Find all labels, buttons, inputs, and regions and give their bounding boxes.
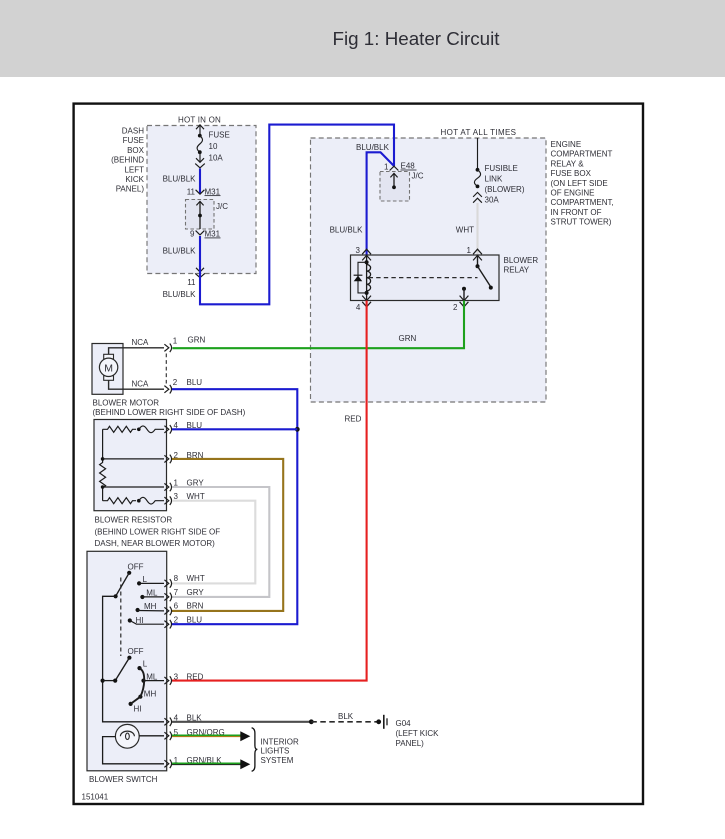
wire BLU resistor pin 4 to junction (172, 428, 297, 430)
svg-text:(BEHIND LOWER RIGHT SIDE OF DA: (BEHIND LOWER RIGHT SIDE OF DASH) (93, 408, 246, 417)
blower motor M1 (92, 344, 123, 395)
fuse value label (209, 131, 230, 163)
svg-text:OFF: OFF (128, 647, 144, 656)
svg-text:RED: RED (345, 414, 362, 423)
switch pin 6 (164, 602, 203, 616)
switch common feed wire (101, 596, 165, 722)
resistor pin 3 (164, 492, 204, 505)
svg-text:1: 1 (173, 337, 178, 346)
relay pin 3 (356, 246, 371, 260)
switch wafer 2 arm (113, 658, 129, 683)
lamp wire to pin 5 (139, 735, 164, 737)
switch wafer 1 contact L (137, 575, 164, 586)
svg-text:RELAY: RELAY (504, 266, 530, 275)
relay clamping diode (354, 262, 367, 293)
svg-text:3: 3 (356, 246, 361, 255)
svg-text:BLU/BLK: BLU/BLK (163, 175, 197, 184)
svg-text:11: 11 (187, 278, 196, 287)
switch wafer 1 contact HI (128, 616, 164, 625)
switch pin 4 (164, 713, 202, 726)
wire RED relay pin 4 to blower switch (172, 301, 367, 681)
resistor element bottom row (103, 497, 164, 504)
fusible link label (485, 164, 525, 205)
resistor element top row (103, 426, 164, 433)
switch wafer 1 contact ML (140, 588, 164, 599)
svg-text:M31: M31 (205, 230, 221, 239)
svg-text:BLK: BLK (338, 712, 354, 721)
svg-text:BLU/BLK: BLU/BLK (330, 226, 364, 235)
svg-text:NCA: NCA (132, 338, 150, 347)
switch wafer 2 contact ML (141, 672, 164, 682)
switch pin 1 (164, 756, 222, 768)
switch pin 3 (164, 673, 203, 685)
svg-text:M: M (104, 362, 113, 374)
svg-text:J/C: J/C (216, 202, 228, 211)
svg-text:3: 3 (174, 673, 179, 682)
wire NCA motor to pin 1 (109, 338, 164, 354)
svg-text:RED: RED (187, 673, 204, 682)
relay pin 1 (467, 246, 482, 260)
svg-text:7: 7 (174, 588, 179, 597)
resistor pin 2 (164, 451, 203, 463)
relay switch contact (462, 255, 493, 301)
net HOT IN ON (178, 115, 221, 124)
svg-text:OFF: OFF (128, 562, 144, 571)
wire BLU/BLK relay pin3 to E48 (330, 143, 394, 255)
svg-text:4: 4 (356, 303, 361, 312)
blower resistor label (95, 516, 221, 549)
junction BLU node (295, 427, 300, 432)
wire WHT resistor pin 3 to switch pin 8 (172, 501, 256, 584)
svg-text:1: 1 (467, 246, 472, 255)
svg-text:BLU/BLK: BLU/BLK (163, 290, 197, 299)
svg-text:J/C: J/C (412, 172, 424, 181)
switch wafer 2 OFF position (127, 647, 143, 660)
svg-text:ML: ML (146, 588, 158, 597)
switch wafer 2 contact L (137, 659, 147, 670)
wire GRN relay pin 2 to blower motor (173, 301, 465, 349)
switch mechanical link (dashed) (120, 578, 122, 657)
net HOT AT ALL TIMES (441, 128, 517, 137)
blower switch (87, 551, 167, 784)
motor connector pin 2 (164, 378, 202, 394)
svg-text:MH: MH (144, 689, 157, 698)
svg-text:GRN: GRN (188, 336, 206, 345)
svg-text:BLU/BLK: BLU/BLK (356, 143, 390, 152)
svg-text:151041: 151041 (82, 793, 109, 802)
wire BRN resistor pin 2 to switch pin 6 (172, 459, 284, 611)
svg-text:BLU: BLU (187, 615, 203, 624)
svg-text:Fig 1: Heater Circuit: Fig 1: Heater Circuit (333, 28, 501, 49)
svg-text:WHT: WHT (456, 226, 474, 235)
connector M31 pin 9 (190, 230, 221, 239)
svg-text:BLU: BLU (187, 378, 203, 387)
switch pin 8 (164, 574, 204, 588)
diagram number 151041 (82, 793, 109, 802)
switch pin 7 (164, 588, 204, 601)
wire WHT fusible link to relay pin 1 (456, 203, 478, 255)
fuse 10 10A (195, 125, 205, 168)
svg-text:8: 8 (174, 574, 179, 583)
fusible link (blower) 30A (473, 138, 482, 203)
svg-text:2: 2 (174, 615, 179, 624)
svg-text:9: 9 (190, 230, 195, 239)
svg-text:11: 11 (187, 187, 196, 196)
svg-text:2: 2 (173, 378, 178, 387)
svg-text:6: 6 (174, 602, 179, 611)
svg-text:E48: E48 (401, 162, 416, 171)
switch wafer 1 arm (114, 573, 130, 599)
wire NCA motor to pin 2 (109, 379, 164, 389)
svg-text:L: L (143, 659, 148, 668)
wire GRN/BLK to interior lights (172, 759, 250, 769)
wire BLU/BLK fuse to M31 (163, 169, 200, 195)
connector M31 pin 11 (187, 187, 221, 196)
connector E48 pin 1 (384, 162, 416, 172)
engine compartment relay box (dashed enclosure) (311, 138, 547, 402)
switch pin 5 (164, 728, 224, 740)
engine compartment box label (551, 140, 614, 227)
relay pin 4 (356, 296, 371, 313)
wire GRY resistor pin 1 to switch pin 7 (172, 487, 270, 597)
svg-text:BLOWER RESISTOR: BLOWER RESISTOR (95, 516, 173, 525)
svg-text:HOT AT ALL TIMES: HOT AT ALL TIMES (441, 128, 517, 137)
interior lights system brace (252, 728, 299, 772)
resistor mid row pin 1 (103, 486, 164, 488)
svg-text:DASH, NEAR BLOWER MOTOR): DASH, NEAR BLOWER MOTOR) (95, 539, 216, 548)
wire BLU motor pin 2 to blower switch pin 2 (172, 389, 298, 624)
blower relay (351, 255, 539, 301)
switch pin 2 (164, 615, 202, 628)
svg-text:1: 1 (384, 163, 389, 172)
svg-text:HOT IN ON: HOT IN ON (178, 115, 221, 124)
blower resistor (94, 420, 167, 511)
svg-text:MH: MH (144, 602, 157, 611)
switch wafer 2 contact arc (131, 668, 145, 704)
title bar (0, 0, 725, 77)
svg-text:M31: M31 (205, 187, 221, 196)
wire GRN/ORG to interior lights (172, 731, 250, 741)
relay pin 2 (453, 296, 468, 313)
dash fuse box (dashed enclosure) (147, 126, 256, 274)
wire BLU/BLK M31 to box exit (163, 236, 200, 267)
fuse box exit connector pin 11 (163, 268, 205, 299)
svg-text:2: 2 (453, 303, 458, 312)
svg-text:L: L (143, 575, 148, 584)
svg-text:HI: HI (136, 616, 144, 625)
junction connector M31 (J/C) (186, 200, 229, 230)
svg-text:NCA: NCA (132, 379, 150, 388)
motor connector body (165, 354, 167, 384)
resistor pin 1 (164, 479, 204, 492)
resistor left branch (100, 429, 106, 500)
relay coil (365, 255, 371, 301)
svg-text:GRY: GRY (187, 588, 205, 597)
relay armature dashed link (369, 277, 478, 279)
svg-text:WHT: WHT (187, 574, 205, 583)
resistor pin 4 (164, 421, 202, 433)
wire BLU/BLK to E48 (200, 125, 394, 305)
motor connector pin 1 (164, 337, 177, 353)
svg-text:GRN: GRN (399, 334, 417, 343)
svg-text:BLOWER MOTOR: BLOWER MOTOR (93, 399, 160, 408)
blower motor label (93, 399, 246, 417)
svg-text:BLOWER: BLOWER (504, 256, 539, 265)
junction connector E48 (J/C) (380, 172, 424, 202)
svg-text:BLOWER SWITCH: BLOWER SWITCH (89, 775, 158, 784)
switch wafer 1 OFF position (127, 562, 144, 575)
switch wafer 2 contact HI (129, 702, 142, 713)
dash fuse box label (111, 127, 145, 194)
svg-text:BLU/BLK: BLU/BLK (163, 247, 197, 256)
wire BLK switch pin 4 to ground (172, 712, 381, 724)
svg-text:BRN: BRN (187, 602, 204, 611)
switch wafer 1 contact MH (136, 602, 165, 612)
svg-text:HI: HI (134, 704, 142, 713)
svg-text:(BEHIND LOWER RIGHT SIDE OF: (BEHIND LOWER RIGHT SIDE OF (95, 527, 221, 536)
switch wafer 2 contact MH (138, 689, 156, 699)
lamp wire to pin 1 (103, 737, 164, 764)
illumination lamp (115, 724, 139, 748)
resistor mid row pin 2 (103, 458, 164, 460)
ground G04 (384, 715, 439, 748)
svg-text:ML: ML (146, 672, 158, 681)
